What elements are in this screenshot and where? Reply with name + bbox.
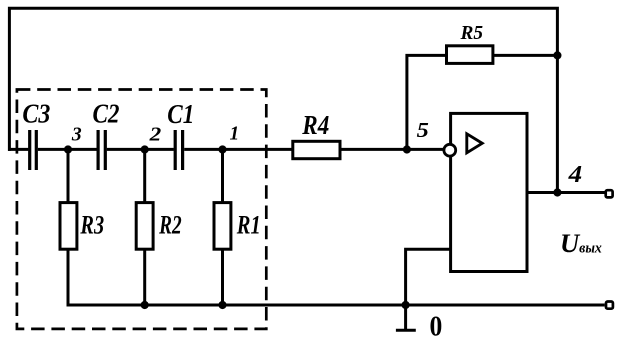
svg-text:0: 0 <box>430 311 443 343</box>
resistor R4 <box>293 141 340 158</box>
wire R4 to op-amp input through node 5 <box>340 148 444 151</box>
svg-text:C2: C2 <box>93 98 120 128</box>
svg-text:2: 2 <box>149 123 162 145</box>
svg-text:C1: C1 <box>167 99 194 129</box>
svg-text:R5: R5 <box>460 22 483 44</box>
resistor R3 <box>60 203 77 250</box>
capacitor C2 <box>98 130 105 170</box>
output terminal bottom <box>606 302 613 309</box>
wire C1 to R4 through node 1 <box>184 148 293 151</box>
wire bottom rail <box>68 249 605 305</box>
wire from left vertical to C3 <box>8 148 28 151</box>
wire C2 to C1 through node 2 <box>107 148 174 151</box>
svg-text:C3: C3 <box>22 98 50 128</box>
svg-text:5: 5 <box>417 118 429 142</box>
wire node 5 up and right to R5 <box>407 55 447 149</box>
svg-text:R3: R3 <box>80 211 104 240</box>
svg-text:4: 4 <box>568 161 583 188</box>
svg-text:R4: R4 <box>301 110 329 140</box>
output terminal top <box>606 190 613 197</box>
ground <box>396 301 416 331</box>
wire node 3 to R3 <box>67 150 70 203</box>
resistor R2 <box>136 203 153 250</box>
capacitor C3 <box>30 130 37 170</box>
node 2 <box>141 145 149 153</box>
resistor R5 <box>447 46 493 64</box>
op-amp U1 <box>444 113 527 271</box>
node 4 <box>553 188 561 196</box>
wire R2 bottom lead <box>143 249 146 305</box>
junction R2/rail <box>141 301 149 309</box>
node 1 <box>218 145 226 153</box>
svg-text:3: 3 <box>71 123 82 145</box>
node 5 <box>403 145 411 153</box>
wire node 1 to R1 <box>221 150 224 203</box>
resistor R1 <box>214 203 231 250</box>
junction R1/rail <box>218 301 226 309</box>
svg-text:1: 1 <box>230 123 240 145</box>
wire R5 to right vertical <box>493 54 558 57</box>
wire R1 bottom lead <box>221 249 224 305</box>
node 3 <box>64 145 72 153</box>
wire C3 to C2 through node 3 <box>38 148 97 151</box>
junction R5/feedback <box>553 51 561 59</box>
svg-text:R1: R1 <box>236 211 261 240</box>
wire top feedback loop: left vertical, top horizontal, right vertical down to node 4 <box>9 8 557 192</box>
wire op-amp output to terminal through node 4 <box>527 191 605 194</box>
wire ground branch to op-amp <box>406 249 451 305</box>
dashed box (phase-shift network boundary) <box>17 90 266 329</box>
svg-text:R2: R2 <box>158 211 181 240</box>
wire node 2 to R2 <box>143 150 146 203</box>
capacitor C1 <box>175 130 182 170</box>
